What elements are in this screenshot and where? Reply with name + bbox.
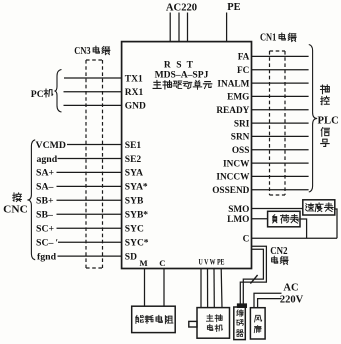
wire M output (144, 269, 146, 307)
wire SB- to SYB* (57, 213, 122, 215)
motor shaft tab (189, 321, 197, 327)
svg-text:SYA*: SYA* (125, 183, 148, 193)
svg-text:U V W PE: U V W PE (199, 257, 225, 267)
svg-text:M: M (139, 258, 148, 268)
svg-text:FA: FA (238, 53, 250, 63)
wire C output (163, 269, 165, 307)
wire PE to motor (220, 269, 223, 308)
label 风扇 fan (254, 315, 261, 332)
wire FC (252, 69, 309, 71)
svg-text:SB+: SB+ (36, 196, 54, 207)
svg-text:CNC: CNC (3, 205, 28, 216)
spindle motor box (197, 308, 230, 339)
wire VCMD to SE1 (67, 144, 122, 146)
svg-text:FC: FC (237, 66, 249, 76)
wire SB+ to SYB (57, 199, 122, 201)
svg-text:C: C (159, 258, 165, 268)
svg-text:OSSEND: OSSEND (212, 186, 249, 196)
svg-text:PE: PE (227, 2, 240, 13)
svg-text:READY: READY (216, 106, 249, 116)
encoder connector blob (238, 304, 247, 307)
wire SRI (252, 122, 309, 124)
svg-text:RX1: RX1 (125, 88, 144, 98)
svg-text:VCMD: VCMD (36, 140, 66, 151)
wire OSSEND (252, 189, 309, 191)
svg-text:SC+: SC+ (36, 224, 55, 235)
CNC brace (27, 140, 35, 260)
wire fgnd to SD (58, 255, 122, 257)
wire load meter to common (300, 219, 307, 238)
wire CN2 cable outer (240, 246, 266, 304)
label 主轴驱动单元 (153, 80, 212, 89)
svg-text:SD: SD (125, 252, 137, 262)
CN1 cable dashed box (270, 51, 286, 195)
wire V phase (207, 269, 209, 308)
wire SC+ to SYC (57, 227, 122, 229)
wire INALM (252, 82, 309, 84)
svg-text:CN1: CN1 (260, 33, 276, 44)
wire U phase (200, 269, 202, 308)
wire agnd to SE2 (58, 158, 122, 160)
svg-text:SMO: SMO (228, 205, 249, 215)
CN2 cable slash mark (250, 275, 257, 284)
svg-text:SYA: SYA (125, 169, 143, 179)
svg-text:SB–: SB– (36, 210, 53, 221)
wire FA (252, 55, 309, 57)
label CN2 cable (270, 246, 288, 264)
svg-text:PC: PC (31, 89, 44, 100)
label 编码器 encoder (236, 310, 243, 337)
label 主轴电机 spindle motor (206, 315, 222, 332)
svg-text:MDS–A–SPJ: MDS–A–SPJ (155, 70, 209, 81)
label 速度表 speed meter (306, 203, 334, 212)
speed meter box (303, 200, 335, 215)
wire TX1 (64, 77, 122, 79)
wire SMO to speed meter (252, 208, 303, 210)
svg-text:INCW: INCW (223, 159, 250, 169)
svg-text:LMO: LMO (227, 215, 249, 225)
svg-text:INALM: INALM (217, 79, 249, 89)
svg-text:SE2: SE2 (125, 155, 142, 165)
svg-text:agnd: agnd (37, 154, 58, 165)
label 接 CNC (3, 193, 28, 216)
svg-text:AC: AC (283, 282, 298, 293)
svg-text:SYC*: SYC* (125, 239, 149, 249)
label CN1 cable (260, 33, 296, 44)
wire SRN (252, 135, 309, 137)
encoder box (234, 307, 246, 340)
svg-text:SC– ʹ: SC– ʹ (36, 238, 58, 249)
svg-text:C: C (243, 235, 250, 245)
wire AC220V lower to fan (258, 299, 282, 308)
fan box (250, 308, 265, 339)
svg-text:SE1: SE1 (125, 141, 142, 151)
wire INCW (252, 162, 309, 164)
spindle drive unit U1 box MDS-A-SPJ (122, 42, 252, 269)
label 轴控PLC信号 (318, 85, 339, 146)
wire T phase input (187, 13, 189, 42)
wire speed meter to common (335, 209, 337, 238)
wire LMO to load meter (252, 218, 268, 220)
wire AC220V upper to fan (254, 293, 282, 308)
wire PE input (226, 13, 228, 42)
load meter box (268, 211, 300, 227)
svg-text:AC220: AC220 (166, 2, 197, 13)
wire READY (252, 109, 309, 111)
wire RX1 (64, 91, 122, 93)
wire OSS (252, 149, 309, 151)
svg-text:INCCW: INCCW (216, 173, 250, 183)
wire INCCW (252, 175, 309, 177)
svg-text:SYC: SYC (125, 225, 144, 235)
wire C common (252, 237, 338, 239)
svg-text:CN2: CN2 (270, 246, 287, 257)
wire S phase input (178, 13, 180, 42)
svg-text:CN3: CN3 (74, 46, 90, 57)
wire GND (64, 104, 122, 106)
wire R phase input (169, 13, 171, 42)
svg-text:GND: GND (125, 102, 146, 112)
wire CN2 cable inner (243, 249, 263, 304)
CN3 cable dashed box (86, 60, 103, 268)
wire EMG (252, 95, 309, 97)
label CN3 cable (74, 46, 110, 57)
svg-text:SRI: SRI (234, 119, 250, 129)
svg-text:SYB: SYB (125, 197, 144, 207)
braking resistor box (132, 306, 176, 332)
svg-text:SA+: SA+ (36, 168, 55, 179)
wire SC- to SYC* (58, 241, 122, 243)
svg-text:TX1: TX1 (125, 74, 143, 84)
svg-text:SRN: SRN (231, 133, 250, 143)
wire SA+ to SYA (57, 171, 122, 173)
svg-text:SA–: SA– (36, 182, 54, 193)
label 负荷表 load meter (273, 214, 299, 223)
wire SA- to SYA* (57, 185, 122, 187)
svg-text:220V: 220V (280, 294, 304, 305)
svg-text:OSS: OSS (232, 146, 250, 156)
svg-text:fgnd: fgnd (37, 251, 57, 262)
wire W phase (213, 269, 215, 308)
label 能耗电阻 braking resistor (136, 315, 173, 323)
label AC 220V (280, 282, 304, 305)
svg-text:EMG: EMG (227, 93, 249, 103)
PC brace (54, 70, 61, 113)
svg-text:PLC: PLC (318, 116, 339, 127)
svg-text:SYB*: SYB* (125, 211, 148, 221)
label PC机 (31, 89, 53, 100)
PLC brace (309, 45, 317, 193)
